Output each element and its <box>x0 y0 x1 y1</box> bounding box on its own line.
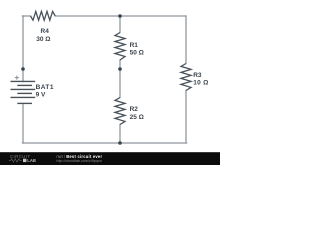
svg-text:R4: R4 <box>41 28 50 35</box>
svg-text:50 Ω: 50 Ω <box>130 50 144 57</box>
svg-text:BAT1: BAT1 <box>36 84 54 91</box>
svg-text:R2: R2 <box>130 106 139 113</box>
svg-text:25 Ω: 25 Ω <box>130 114 144 121</box>
svg-text:10 Ω: 10 Ω <box>193 80 208 87</box>
svg-text:R3: R3 <box>193 72 202 79</box>
svg-text:30 Ω: 30 Ω <box>36 36 50 43</box>
svg-text:R1: R1 <box>130 42 139 49</box>
svg-text:9 V: 9 V <box>36 92 46 99</box>
svg-text:LAB: LAB <box>27 158 36 163</box>
svg-text:htlp://circuitlab.com/c/9pqxu: htlp://circuitlab.com/c/9pqxu <box>56 159 102 163</box>
